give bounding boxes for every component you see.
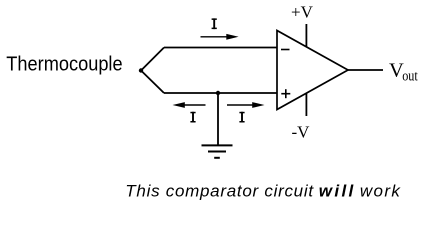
svg-text:work: work [360,181,401,200]
svg-text:+V: +V [291,2,314,21]
svg-text:out: out [402,69,418,85]
svg-text:-V: -V [292,122,311,141]
wire positive supply [305,24,307,47]
op-amp U1 [277,31,348,110]
wire bottom horizontal to noninverting input [164,92,277,94]
wire upper diagonal from junction [141,48,164,71]
current arrow I bottom-left [173,102,206,108]
node thermocouple junction [139,68,143,72]
svg-text:Thermocouple: Thermocouple [6,54,122,76]
label I bottom-right current [239,112,244,123]
label I bottom-left current [190,112,195,123]
wire negative supply [305,93,307,116]
wire ground drop [217,93,219,145]
ground [202,145,233,157]
current arrow I bottom-right [227,102,265,108]
label I top current [212,18,217,29]
wire top horizontal to inverting input [164,47,277,49]
svg-text:will: will [319,181,356,200]
current arrow I top [201,34,239,40]
svg-text:This comparator circuit: This comparator circuit [125,181,314,200]
wire lower diagonal from junction [141,71,164,94]
node ground junction [216,91,220,95]
wire output [348,69,383,71]
